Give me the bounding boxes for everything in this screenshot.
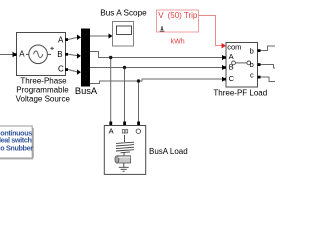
svg-text:A: A <box>109 127 114 136</box>
svg-text:c: c <box>250 71 254 80</box>
svg-text:C: C <box>229 74 235 83</box>
svg-text:Three-Phase: Three-Phase <box>20 77 67 86</box>
svg-text:B: B <box>229 63 234 72</box>
svg-text:Bus A Scope: Bus A Scope <box>100 8 147 17</box>
svg-text:Voltage Source: Voltage Source <box>16 95 71 104</box>
svg-text:B: B <box>57 50 62 59</box>
svg-text:kWh: kWh <box>171 39 185 46</box>
svg-text:o Snubber: o Snubber <box>0 143 33 152</box>
svg-text:com: com <box>227 43 241 52</box>
svg-text:C: C <box>58 64 64 73</box>
svg-text:b: b <box>250 60 254 69</box>
svg-text:A: A <box>229 52 234 61</box>
svg-text:(50) Trip: (50) Trip <box>168 11 198 20</box>
svg-text:BusA Load: BusA Load <box>149 147 188 156</box>
svg-text:Programmable: Programmable <box>16 86 69 95</box>
svg-text:A: A <box>58 35 64 44</box>
svg-text:BusA: BusA <box>75 86 98 96</box>
svg-text:A: A <box>19 50 25 59</box>
svg-text:b: b <box>250 47 254 56</box>
svg-text:V: V <box>158 11 164 20</box>
svg-text:Three-PF Load: Three-PF Load <box>213 89 267 98</box>
